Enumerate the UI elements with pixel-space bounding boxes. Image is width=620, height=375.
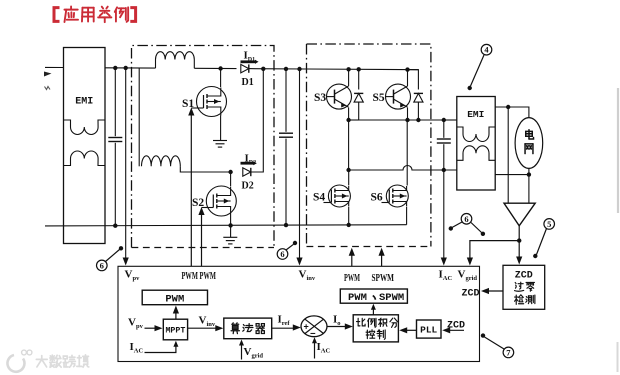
wire Vpv sense [123,68,129,266]
summing junction [301,316,327,340]
label Iref [278,314,291,328]
arrow summing to PI [327,323,353,329]
wire bottom rail [45,225,407,226]
svg-text:−: − [310,329,316,340]
mosfet S1 [191,69,226,117]
ground below S1 [213,141,227,148]
arrow PWM into inverter [349,248,355,267]
wire Vinv sense [296,69,302,266]
node D2 cathode riser top [261,67,265,71]
node C2 bottom [284,223,288,227]
svg-text:SPWM: SPWM [372,273,395,284]
svg-text:S3: S3 [314,92,326,104]
EMI filter block 1 [64,48,106,244]
svg-text:EMI: EMI [75,97,93,108]
block MPPT [163,319,187,340]
arrow PLL to PI [399,327,416,333]
diode DS3 [354,69,363,120]
label IAC below summing [317,341,331,355]
arrow MPPT to algorithm [188,325,224,331]
diode D1 [241,64,249,72]
svg-text:S4: S4 [313,192,325,204]
node Vpv tap [124,66,128,70]
node output B cap [442,168,446,172]
arrow algorithm to summing [272,324,301,330]
svg-text:ZCD: ZCD [515,271,533,282]
svg-text:PWM: PWM [165,294,184,306]
label 6 callout mid [277,241,297,259]
label IAC inner [130,341,144,355]
label Vgrid top [458,269,478,283]
comparator triangle [504,203,535,226]
label Vpv inner [128,317,144,331]
label S3 [314,92,326,104]
inverter dash-dot box [307,44,431,247]
wire IAC to MPPT [145,341,179,353]
node output A cap [442,118,446,122]
block algorithm 算法器 [224,318,272,339]
arrow SPWM into inverter [379,248,385,267]
igbt S3 [327,69,352,120]
label Vpv top [125,269,141,283]
label S5 [373,92,385,104]
ground below S2 [223,237,237,244]
gate arrow S1 PWM [188,108,194,267]
svg-text:6: 6 [464,214,468,224]
wire grid to zcd comparator right [528,169,530,204]
wire output line B with hop [349,166,457,171]
node S1 drain [218,66,222,70]
inductor L1 [156,52,195,69]
label SPWM top [372,273,395,284]
control box [118,266,480,361]
wire grid to zcd comparator left [507,107,509,203]
label ID2 current [241,153,257,167]
capacitor C2 dc-link [279,69,293,225]
svg-text:MPPT: MPPT [165,327,185,336]
wire comparator out [516,226,522,265]
ZCD detection box [503,265,545,309]
grid ellipse 电网 [515,118,543,169]
label ZCD right inside [462,289,480,300]
choke windings EMI1 [64,120,105,166]
watermark text 大数跨境 [36,355,89,367]
svg-text:ZCD: ZCD [462,289,480,300]
igbt S5 [386,70,411,120]
wire S6 source [406,207,408,225]
label Vgrid inner [244,346,264,360]
svg-text:S5: S5 [373,92,385,104]
input stub mark [44,72,52,90]
label IAC top [439,269,453,283]
wire L2 to D2 [180,171,230,173]
svg-text:PWM PWM: PWM PWM [182,271,217,282]
wire D1 out [248,68,307,70]
label 6 callout left [97,246,124,271]
svg-text:D1: D1 [242,77,254,88]
wire EMI1 to boost top [105,67,156,69]
label Io [333,314,341,328]
block PI control 比例积分控制 [353,315,398,342]
label 4 callout [468,44,492,90]
gate arrow S2 PWM [198,207,204,266]
arrow ZCD to PLL [442,327,464,333]
label S6 [371,192,383,204]
wire S2 source [230,215,232,237]
scan artifact right edge [616,88,619,372]
svg-text:6: 6 [280,249,284,259]
arrow PI to PWMSPWM [371,304,376,315]
arrow Vgrid into algorithm [239,340,244,360]
label S2 [192,197,204,209]
node S2 drain [228,170,232,174]
svg-text:PWM: PWM [344,273,360,284]
label S4 [313,192,325,204]
node DS3 top [357,67,361,71]
node S4 source [347,223,351,227]
wire output line A [349,119,457,121]
node S3 collector [346,67,350,71]
svg-text:5: 5 [547,219,551,229]
label D2 [242,181,254,192]
svg-text:SPWM: SPWM [379,292,404,304]
wire IAC sense [441,170,447,266]
title 【应用举例】 red heading [54,6,136,22]
mosfet S4 [324,170,351,207]
mosfet S6 [382,185,409,207]
wire S3-S4 midpoint riser [348,120,350,170]
block PLL [417,320,442,338]
label Vinv top [299,269,316,283]
arrow IAC into summing [312,337,317,358]
node DS5 bottom [416,118,420,122]
diode D2 [243,168,251,176]
label ID1 current [241,50,259,64]
svg-text:7: 7 [506,347,511,357]
node midpoint [346,168,350,172]
mosfet S2 [202,172,237,216]
node S5 emitter [405,118,409,122]
svg-text:PWM: PWM [348,292,367,304]
node ZCD tap top [506,105,510,109]
label 5 callout [533,219,554,259]
node C2 top [284,67,288,71]
label PWM mid top [344,273,360,284]
boost converter dash-dot box [132,46,275,248]
wire EMI2 to grid bottom [495,174,529,176]
node grid bottom [527,172,531,176]
capacitor C1 [108,68,122,226]
arrow Vpv to MPPT [145,325,163,331]
node cap1 top [113,66,117,70]
node S5 collector [405,67,409,71]
wire dc rail top inverter [307,68,419,71]
label PWM PWM top [182,271,217,282]
svg-text:D2: D2 [242,181,254,192]
capacitor C3 output [437,120,451,170]
label 7 callout [481,333,514,357]
inductor L2 [142,156,187,172]
wire Vgrid branch [467,241,519,266]
wire S1 source [220,116,222,141]
label ZCD inner [447,321,465,332]
label 6 callout right [449,214,486,237]
svg-text:PLL: PLL [420,325,437,336]
node S2 source rail [228,223,232,227]
EMI filter block 2 [457,97,495,191]
wire EMI2 to grid top [495,107,529,118]
wire input top [45,66,64,68]
node Vinv tap [297,67,301,71]
wire feed to L2 [138,68,140,166]
svg-text:S1: S1 [182,98,194,110]
wire L1 to D1 [194,67,236,69]
wire S5-S6 leg [406,120,408,186]
block PWM [142,290,207,305]
node comparator out [517,238,521,242]
arrow MPPT to PWM [173,306,179,320]
block PWM SPWM [340,289,407,304]
svg-text:S2: S2 [192,197,204,209]
wire D2 cathode riser [250,69,263,172]
label D1 [242,77,254,88]
arrow ZCD to control [481,288,503,294]
svg-text:S6: S6 [371,192,383,204]
watermark logo [7,350,31,372]
node cap1 bottom [113,224,117,228]
svg-text:6: 6 [100,260,104,270]
label Vinv inner [199,315,216,329]
svg-text:+: + [304,322,309,332]
choke windings EMI2 [457,127,496,160]
wire S3 leg join [349,119,359,121]
diode DS5 [408,70,424,120]
label S1 [182,98,194,110]
wire S4 source [348,207,350,225]
svg-text:EMI: EMI [467,109,484,120]
node S3 emitter [346,118,350,122]
